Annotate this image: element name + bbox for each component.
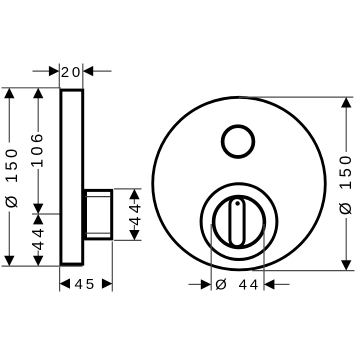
svg-text:Ø 150: Ø 150 [337,152,355,215]
escutcheon plate circle D150 [153,97,326,270]
svg-text:44: 44 [30,225,48,250]
svg-text:45: 45 [75,276,97,293]
dimension D150 left [3,88,21,266]
svg-text:106: 106 [29,130,47,168]
dimension 20 top [33,64,112,89]
select button circle [223,126,254,157]
svg-text:Ø 150: Ø 150 [3,145,21,208]
dimension 106 left [29,88,47,214]
plate (escutcheon side view) [61,90,83,264]
knob handle pill [230,198,244,247]
knob index dot [235,201,239,205]
sleeve ring circle [201,184,277,260]
wire extension line mid centerline (y=214) [32,213,60,215]
wire extension line bottom (y=266.1) [2,265,83,267]
dimension 44 right of cylinder [114,189,144,241]
svg-text:44: 44 [126,201,144,226]
dimension D44 front [189,224,290,294]
cylinder (valve body side view) [85,190,112,239]
dimension 45 bottom [60,242,113,293]
svg-text:20: 20 [61,64,83,81]
svg-text:Ø: Ø [215,277,227,294]
knob circle D44 [214,197,265,248]
dimension D150 right [239,97,355,271]
wire extension line top (y=87.8) [2,87,61,89]
dimension 44 left lower [30,214,48,266]
svg-text:44: 44 [239,277,261,294]
